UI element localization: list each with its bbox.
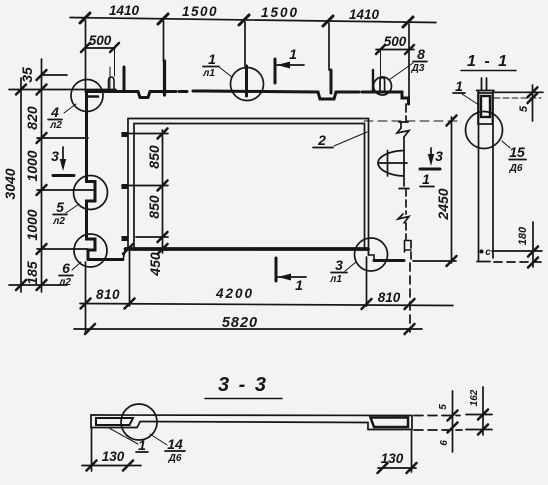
svg-text:500: 500 xyxy=(384,34,407,49)
svg-text:810: 810 xyxy=(378,290,401,305)
svg-text:1500: 1500 xyxy=(261,5,299,20)
label 15 D6 xyxy=(502,141,526,174)
anchor wires top xyxy=(481,78,483,91)
svg-text:3 - 3: 3 - 3 xyxy=(218,374,268,396)
svg-text:л2: л2 xyxy=(49,120,62,131)
detail circle 8 top right xyxy=(374,77,392,95)
extension line x=408 right wall top xyxy=(408,24,410,104)
svg-text:1: 1 xyxy=(289,46,297,62)
svg-text:2: 2 xyxy=(317,132,326,148)
svg-text:Д3: Д3 xyxy=(411,63,425,74)
extension y=190 xyxy=(37,189,95,191)
dim 130 left xyxy=(82,428,141,471)
svg-text:5820: 5820 xyxy=(222,315,258,331)
svg-text:6: 6 xyxy=(439,440,450,446)
wall corner step in circle 4 xyxy=(88,95,98,98)
step up to main bottom edge xyxy=(123,249,126,260)
dashed extensions right of slab xyxy=(414,415,460,417)
svg-text:л1: л1 xyxy=(329,274,342,285)
right end box xyxy=(368,416,412,430)
svg-text:л2: л2 xyxy=(52,216,65,227)
svg-text:1: 1 xyxy=(138,437,146,453)
svg-text:Д6: Д6 xyxy=(509,163,523,174)
svg-text:3: 3 xyxy=(335,257,343,273)
ticks left chain xyxy=(16,70,47,290)
extension line x=328 xyxy=(328,23,330,70)
top dimension line xyxy=(70,13,436,27)
label 1 l1 top xyxy=(202,51,232,79)
dim 162 right of 3-3 xyxy=(466,387,492,435)
left end box xyxy=(91,415,140,428)
right wall below arch xyxy=(403,176,405,186)
plan bottom edge left low step xyxy=(88,258,123,261)
extension line x=244 xyxy=(244,22,246,66)
right wall segment xyxy=(403,137,405,150)
detail circle 3 bottom right xyxy=(355,238,388,271)
right embedded bar xyxy=(371,418,409,428)
detail circle 6 xyxy=(74,234,107,267)
svg-text:2450: 2450 xyxy=(435,188,451,220)
svg-text:1410: 1410 xyxy=(109,3,140,18)
label 5 l2 xyxy=(52,199,79,227)
label 1 underline near 2450 xyxy=(420,171,434,187)
svg-text:850: 850 xyxy=(146,195,162,219)
svg-text:1: 1 xyxy=(455,78,463,94)
anchor bar x=373 xyxy=(372,70,374,92)
dim 500 left xyxy=(81,43,119,76)
left dimension chain vertical line 3040 xyxy=(20,78,22,292)
vent arch shape xyxy=(378,151,407,177)
svg-text:500: 500 xyxy=(89,33,112,48)
section mark 3 right xyxy=(420,148,443,169)
svg-text:1000: 1000 xyxy=(24,150,40,181)
right wall break zigzag 2 xyxy=(398,214,409,223)
svg-text:35: 35 xyxy=(19,67,35,83)
svg-text:3: 3 xyxy=(435,148,443,164)
right wall break zigzag xyxy=(397,128,409,137)
label 6 l2 xyxy=(58,260,81,288)
section mark 3 left xyxy=(51,147,74,176)
svg-text:1: 1 xyxy=(422,171,430,187)
inner dim chain 850/850/450 xyxy=(162,130,164,253)
svg-text:130: 130 xyxy=(381,451,404,466)
bottom dim row 5820 xyxy=(74,324,422,334)
extension line left wall top xyxy=(85,20,87,91)
right wall jog xyxy=(399,122,408,128)
left dimension chain vertical line inner xyxy=(41,59,43,292)
detail circle 1 top xyxy=(231,68,264,101)
svg-text:1: 1 xyxy=(208,51,216,67)
extension y=285 xyxy=(9,284,67,286)
svg-text:185: 185 xyxy=(24,261,40,285)
dim 500 right xyxy=(376,45,414,76)
svg-text:л2: л2 xyxy=(58,277,71,288)
label 3 l1 xyxy=(329,257,356,285)
extension line x=163 xyxy=(163,21,165,62)
svg-text:8: 8 xyxy=(417,46,425,62)
svg-text:1 - 1: 1 - 1 xyxy=(467,53,509,70)
anchor loop in circle 8 xyxy=(380,78,385,92)
extension y=249 xyxy=(37,248,88,250)
svg-text:3: 3 xyxy=(51,148,59,164)
svg-text:5: 5 xyxy=(518,105,530,112)
right wall edge upper xyxy=(405,104,407,122)
svg-text:180: 180 xyxy=(517,226,529,245)
label 2 with leader xyxy=(313,132,367,148)
svg-text:л1: л1 xyxy=(202,68,215,79)
svg-text:1000: 1000 xyxy=(24,209,40,240)
svg-text:162: 162 xyxy=(469,389,480,406)
svg-text:14: 14 xyxy=(167,436,183,452)
svg-text:5: 5 xyxy=(438,404,449,410)
svg-text:1410: 1410 xyxy=(349,7,380,22)
anchor bar x=124 xyxy=(123,67,126,90)
section mark 1 bottom xyxy=(276,258,306,293)
label 1 leader 1-1 xyxy=(453,78,479,105)
svg-text:850: 850 xyxy=(146,145,162,169)
dim 180 right of 1-1 xyxy=(528,222,538,268)
bottom extension lines xyxy=(85,262,87,332)
svg-text:810: 810 xyxy=(96,287,120,302)
svg-text:1: 1 xyxy=(295,277,303,293)
extension y=138 xyxy=(37,137,88,139)
label 14 D6 xyxy=(150,434,185,464)
dim 5 and 6 right of 3-3 xyxy=(448,391,458,452)
svg-text:5: 5 xyxy=(56,199,64,215)
dim 2450 right xyxy=(364,116,458,267)
anchor bar x=164 xyxy=(163,61,166,95)
dim 5 right of 1-1 xyxy=(494,85,543,121)
1-1 bottom xyxy=(480,250,484,254)
svg-text:6: 6 xyxy=(62,260,70,276)
plan bottom edge main xyxy=(126,247,369,251)
bottom dim row 810/4200/810 xyxy=(80,299,453,310)
svg-text:4: 4 xyxy=(50,104,59,120)
right wall outer dashed lower xyxy=(410,241,412,262)
slab top line xyxy=(91,414,412,417)
svg-text:15: 15 xyxy=(509,144,525,160)
svg-text:Д6: Д6 xyxy=(168,453,182,464)
section mark 1 top xyxy=(275,46,304,83)
svg-text:820: 820 xyxy=(24,106,40,130)
svg-text:4200: 4200 xyxy=(215,286,254,301)
svg-text:3040: 3040 xyxy=(2,168,18,199)
anchor loop at 112 xyxy=(109,77,115,89)
extension y=75 xyxy=(43,74,67,76)
label 1 3-3 xyxy=(109,428,148,453)
bottom edge step at circle 3 xyxy=(369,249,375,261)
left embedded bar xyxy=(96,418,133,425)
detail circle 3-3 xyxy=(121,404,157,440)
detail circle 4 xyxy=(71,80,103,112)
dim 130 right xyxy=(378,431,417,473)
extension y=89.5 xyxy=(9,89,116,91)
svg-text:с: с xyxy=(485,247,491,258)
section 1-1 body xyxy=(477,91,495,261)
slab bottom line xyxy=(140,422,368,423)
anchor mark thin x=110 xyxy=(109,67,111,89)
detail circle 15 xyxy=(466,112,503,149)
svg-text:1500: 1500 xyxy=(182,4,218,19)
bottom right corner hook xyxy=(405,241,412,253)
label 8 D3 xyxy=(389,46,427,80)
svg-text:130: 130 xyxy=(102,449,125,464)
anchor bar x=246 xyxy=(245,66,248,96)
svg-text:450: 450 xyxy=(147,252,163,277)
anchor plates on opening left edge xyxy=(122,132,129,241)
anchor bar x=331 xyxy=(330,70,333,93)
plan top wall edge xyxy=(86,91,409,104)
inner opening rectangle outer line xyxy=(128,119,369,256)
detail circle 5 xyxy=(74,176,108,210)
label 4 l2 xyxy=(48,104,76,131)
embedded detail rect xyxy=(478,93,493,124)
plan bottom edge right low step xyxy=(374,259,404,262)
plan left wall edge xyxy=(87,92,96,260)
